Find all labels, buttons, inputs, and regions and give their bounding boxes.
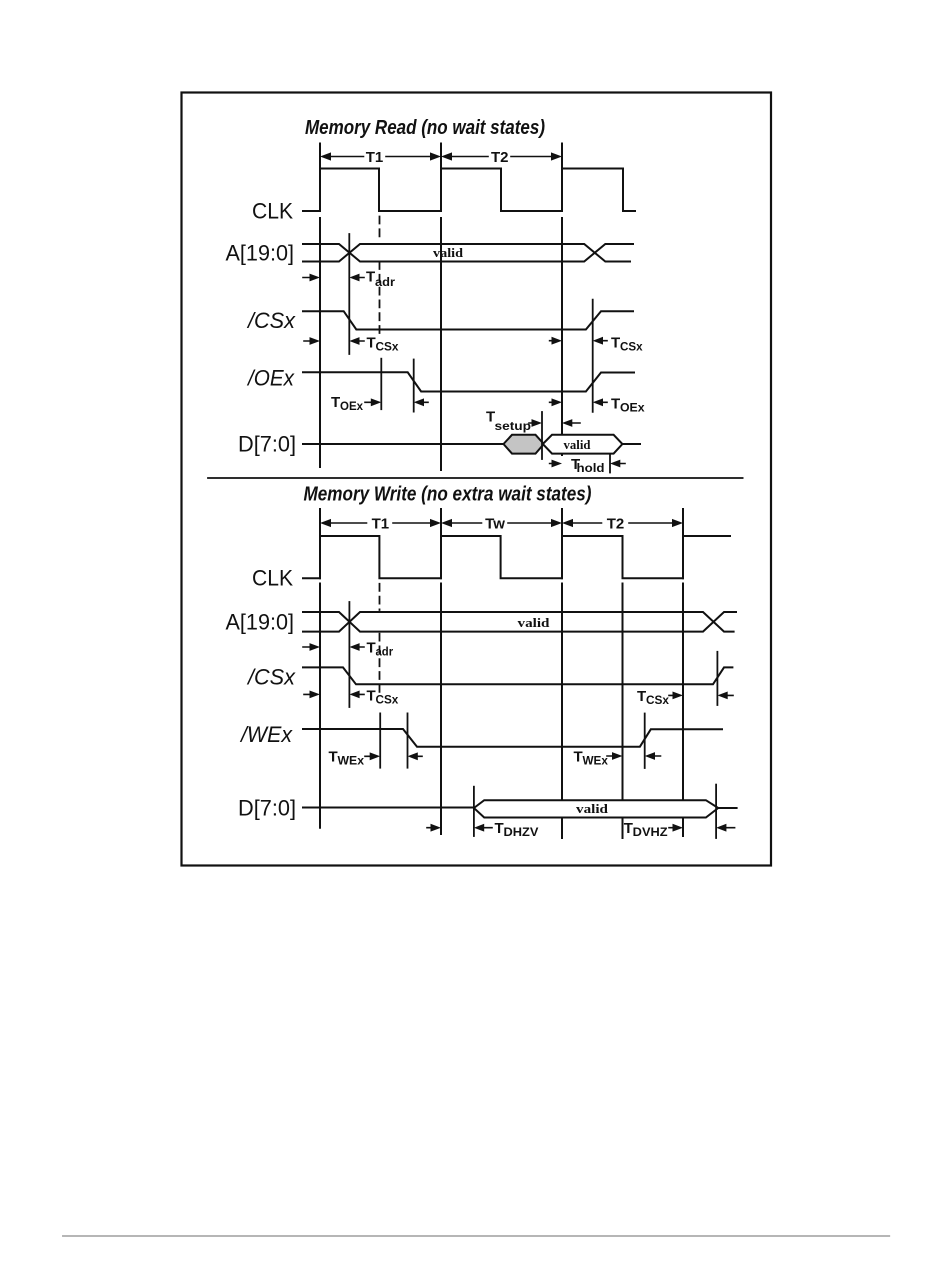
tick mark x=407.5 write (407, 713, 409, 767)
wire D[7:0] read trail (622, 443, 640, 445)
guide line V3 read x=562 (561, 144, 563, 456)
label /CSx read (246, 308, 296, 333)
dimension TCSx read left (304, 335, 399, 354)
svg-text:T: T (367, 688, 376, 705)
tick mark x=381.3 read (380, 359, 382, 410)
guide line V5 write x=622.5 (622, 584, 624, 839)
value label valid (D write) (576, 801, 609, 816)
label /OEx read (246, 366, 295, 391)
label CLK write (252, 565, 293, 590)
label D[7:0] read (238, 432, 296, 457)
svg-text:T: T (495, 820, 504, 837)
dashed guide write x=379.4 (379, 584, 381, 693)
svg-text:T: T (624, 820, 633, 837)
wire D[7:0] read lead (303, 443, 503, 445)
svg-text:Tw: Tw (485, 516, 505, 533)
dimension Tadr read (303, 269, 395, 290)
svg-text:adr: adr (375, 275, 395, 289)
footer rule (63, 1235, 890, 1237)
dimension TDVHZ write (624, 820, 735, 839)
svg-text:WEx: WEx (338, 754, 365, 768)
dimension TOEx read left (331, 394, 428, 413)
wire /WEx write waveform (303, 729, 722, 747)
svg-text:T: T (637, 688, 646, 705)
tick mark x=413.7 read (413, 360, 415, 412)
svg-text:T: T (331, 394, 340, 411)
svg-text:T1: T1 (366, 149, 384, 166)
dimension Tadr write (303, 640, 393, 659)
dimension Tsetup read (486, 409, 580, 434)
wire /CSx write waveform (303, 667, 732, 684)
tick mark x=349.4 write (348, 602, 350, 707)
svg-text:T2: T2 (491, 149, 509, 166)
svg-text:DVHZ: DVHZ (633, 825, 668, 839)
dimension TOEx read right (550, 396, 645, 415)
dimension TCSx write left (304, 688, 399, 707)
svg-text:T: T (366, 269, 375, 286)
svg-text:T: T (329, 749, 338, 766)
svg-text:/OEx: /OEx (246, 366, 295, 391)
dimension Thold read (550, 456, 625, 475)
svg-text:setup: setup (495, 419, 532, 433)
label /CSx write (246, 664, 296, 689)
dimension TCSx write right (637, 688, 733, 707)
svg-text:Memory Write (no extra wait st: Memory Write (no extra wait states) (304, 484, 592, 506)
guide line V3 write x=562 (561, 509, 563, 838)
tick mark x=592.7 read (592, 300, 594, 412)
guide line V2 read x=441 (440, 144, 442, 471)
svg-text:valid: valid (576, 801, 609, 816)
svg-text:CLK: CLK (252, 565, 293, 590)
svg-text:CSx: CSx (376, 693, 399, 707)
dimension TDHZV write (427, 820, 538, 839)
svg-text:valid: valid (564, 437, 592, 452)
svg-text:CSx: CSx (620, 340, 643, 354)
dimension T2 write (562, 516, 683, 533)
bus A[19:0] read line2 (303, 244, 630, 262)
svg-text:CSx: CSx (376, 340, 399, 354)
svg-text:T2: T2 (607, 516, 625, 533)
value label valid (D read) (564, 437, 592, 452)
svg-text:T: T (367, 640, 376, 657)
hexagon valid (D write) (474, 800, 718, 817)
tick mark x=542 read (541, 412, 543, 459)
title: Memory Write (no extra wait states) (304, 484, 592, 506)
svg-text:/CSx: /CSx (246, 664, 296, 689)
guide line V1 write x=320 (319, 509, 321, 828)
tick mark x=349.3 read (348, 234, 350, 354)
svg-text:/WEx: /WEx (239, 722, 293, 747)
dimension TWEx write right (574, 749, 661, 768)
tick mark x=380.2 write (379, 713, 381, 767)
dimension T2 read (441, 149, 562, 166)
value label valid (A read) (433, 245, 464, 260)
dimension TCSx read right (550, 335, 643, 354)
label CLK read (252, 199, 293, 224)
wire D[7:0] write trail (718, 807, 736, 809)
svg-text:Memory Read (no wait states): Memory Read (no wait states) (305, 117, 545, 139)
svg-text:OEx: OEx (620, 401, 645, 415)
label A[19:0] write (226, 610, 295, 635)
bus A[19:0] write line2 (303, 612, 734, 632)
separator line between diagrams (208, 477, 743, 479)
wire CLK write waveform (303, 536, 730, 578)
svg-text:A[19:0]: A[19:0] (226, 610, 295, 635)
svg-text:T1: T1 (372, 516, 390, 533)
svg-text:hold: hold (577, 461, 605, 475)
svg-text:DHZV: DHZV (504, 825, 539, 839)
svg-text:WEx: WEx (583, 754, 609, 768)
wire D[7:0] write lead (303, 807, 474, 809)
bus A[19:0] write line1 (303, 612, 736, 632)
figure frame (182, 93, 772, 866)
tick mark x=644.7 write (644, 714, 646, 769)
svg-text:T: T (367, 335, 376, 352)
title: Memory Read (no wait states) (305, 117, 545, 139)
label A[19:0] read (226, 241, 295, 266)
guide line V4 write x=683 (682, 509, 684, 836)
guide line V1 read x=320 (319, 144, 321, 468)
tick mark x=716.1 write (715, 785, 717, 838)
svg-text:A[19:0]: A[19:0] (226, 241, 295, 266)
dimension T1 write (320, 516, 441, 533)
value label valid (A write) (518, 615, 551, 630)
svg-text:D[7:0]: D[7:0] (238, 795, 296, 820)
dimension TWEx write left (329, 749, 423, 768)
svg-text:CSx: CSx (646, 693, 669, 707)
svg-text:T: T (611, 335, 620, 352)
tick mark x=473.9 write (473, 787, 475, 836)
tick mark x=610 read (609, 455, 611, 473)
svg-text:/CSx: /CSx (246, 308, 296, 333)
dimension T1 read (320, 149, 441, 166)
svg-text:T: T (611, 396, 620, 413)
wire /CSx read waveform (303, 311, 633, 329)
wire /OEx read waveform (303, 372, 634, 391)
hexagon valid (D read) (543, 435, 623, 454)
svg-text:adr: adr (376, 645, 394, 659)
svg-text:valid: valid (433, 245, 464, 260)
label D[7:0] write (238, 795, 296, 820)
guide line V2 write x=441 (440, 509, 442, 834)
label /WEx write (239, 722, 293, 747)
svg-text:CLK: CLK (252, 199, 293, 224)
svg-text:OEx: OEx (340, 399, 363, 413)
bus A[19:0] read line1 (303, 244, 633, 262)
tick mark x=717.4 write (716, 652, 718, 705)
svg-text:T: T (574, 749, 583, 766)
dashed guide read x=379 (379, 217, 381, 339)
svg-text:D[7:0]: D[7:0] (238, 432, 296, 457)
hexagon grey (D read invalid) (504, 435, 544, 454)
dimension Tw write (441, 516, 562, 533)
wire CLK read waveform (303, 169, 635, 212)
svg-text:valid: valid (518, 615, 551, 630)
